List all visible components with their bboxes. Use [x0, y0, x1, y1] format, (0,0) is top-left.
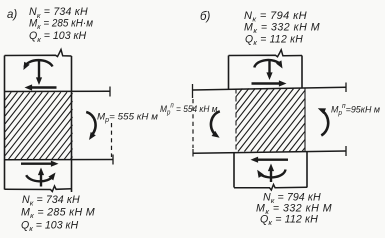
- column b upper: left edge: [228, 56, 230, 91]
- svg-text:Mр​= 555 кН м: Mр​= 555 кН м: [97, 112, 158, 125]
- column a: bottom edge with break symbol: [5, 186, 72, 192]
- beam moment arrow Mp (fig a, clockwise C): [86, 112, 95, 135]
- axial force arrow N (top of column a, downward): [38, 61, 40, 81]
- column b: bottom edge with break symbol: [234, 185, 307, 191]
- tick at right end of beam bottom line, fig a: [112, 155, 114, 165]
- tick at right end of beam top line, fig a: [109, 87, 111, 97]
- svg-text:а): а): [7, 9, 17, 21]
- moment arc arrow (top of column b, CW): [254, 60, 280, 68]
- tick at right end of beam top line, fig b: [345, 83, 347, 93]
- value label Mp^п=554 kN*m, fig b left: [160, 102, 217, 117]
- shear force arrow Q (top of column a, leftward): [29, 86, 57, 88]
- moment arc arrow (bottom of column b, CW): [261, 170, 286, 178]
- svg-text:б): б): [200, 11, 210, 23]
- svg-text:Mрп = 554 кН м: Mрп = 554 кН м: [160, 102, 217, 117]
- column a: top edge with break symbol: [5, 50, 72, 57]
- axial force arrow N (top of column b, downward): [268, 61, 270, 76]
- column b: top edge with break symbol: [229, 50, 303, 57]
- tick at left end of beam top line, fig b: [192, 84, 194, 98]
- joint top line extended as beam top, fig a: [5, 90, 111, 92]
- axial force arrow N (bottom of column a, upward): [40, 172, 42, 187]
- beam top line across joint, fig b: [193, 87, 346, 90]
- shear force arrow Q (top of column b, rightward): [252, 82, 283, 84]
- axial force arrow N (bottom of column b, upward): [270, 168, 272, 182]
- joint panel left edge, fig b: [235, 89, 237, 152]
- small tick at left end of beam bottom line, fig b: [192, 149, 194, 157]
- dashed beam end face, fig a: [111, 123, 113, 157]
- hatched joint panel, fig b: [236, 89, 305, 152]
- svg-text:Qк​ = 103 кН: Qк​ = 103 кН: [21, 220, 79, 234]
- column a: right edge: [71, 56, 73, 192]
- svg-text:Qк​ = 103 кН: Qк​ = 103 кН: [29, 30, 87, 44]
- beam moment arrow Mp_left (fig b, CCW C): [211, 111, 220, 134]
- hatched joint panel, fig a: [5, 92, 73, 159]
- shear force arrow Q (bottom of column b, leftward): [255, 158, 288, 160]
- joint bottom line extended as beam bottom, fig a: [5, 159, 114, 161]
- moment arc arrow (top of column a, CCW): [25, 60, 53, 67]
- tick at right end of beam bottom line, fig b: [345, 146, 347, 156]
- svg-text:Mк​ = 285 кН М: Mк​ = 285 кН М: [21, 207, 95, 221]
- column b lower: left edge: [233, 153, 235, 188]
- moment arc arrow (bottom of column a, CCW): [26, 175, 53, 181]
- dashed beam end face (left), fig b: [192, 99, 194, 148]
- svg-text:Mрп=95кН м: Mрп=95кН м: [331, 103, 380, 117]
- column a: left edge: [4, 56, 6, 190]
- column b upper: right edge: [301, 56, 303, 89]
- column b lower: right edge: [306, 152, 308, 188]
- beam moment arrow Mp_right (fig b, CCW C): [321, 111, 328, 136]
- svg-text:Qк​ = 112 кН: Qк​ = 112 кН: [245, 33, 303, 47]
- shear force arrow Q (bottom of column a, rightward): [21, 162, 54, 164]
- joint panel right edge, fig b: [304, 88, 306, 152]
- beam bottom line across joint, fig b: [193, 151, 346, 153]
